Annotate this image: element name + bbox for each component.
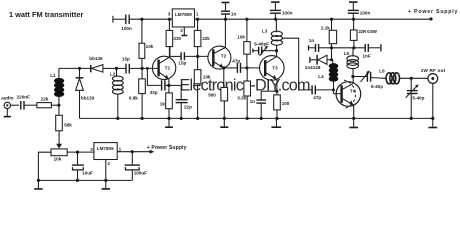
svg-text:3.3k: 3.3k (237, 96, 246, 101)
svg-text:L3: L3 (262, 29, 268, 34)
resistor 2.2k (329, 19, 336, 48)
trimmer 6-40pF (T3 tank) (253, 47, 277, 56)
resistor 10k (T1 bias upper) (139, 19, 145, 68)
ground rail (RF section) (80, 117, 433, 119)
capacitor 220nF (21, 101, 24, 110)
svg-text:220nF: 220nF (17, 95, 30, 100)
svg-text:T2: T2 (221, 54, 227, 59)
resistor 6.8k (T1 bias lower) (139, 68, 146, 118)
wire (51, 104, 59, 106)
inductor L3 (271, 19, 282, 51)
svg-text:3: 3 (90, 147, 93, 152)
svg-text:22k: 22k (41, 96, 49, 101)
svg-text:2: 2 (180, 28, 183, 33)
svg-text:3: 3 (168, 12, 171, 17)
potentiometer 10k (51, 149, 67, 156)
ground symbol (output) (428, 118, 437, 127)
capacitor 15p (tank to base) (117, 64, 158, 74)
svg-text:10k: 10k (54, 157, 62, 162)
inductor L2 (112, 68, 123, 118)
U2 output wire (117, 151, 151, 153)
svg-text:47p: 47p (313, 95, 321, 100)
svg-text:10k: 10k (146, 44, 154, 49)
node 10uF (76, 151, 79, 154)
svg-text:33p: 33p (150, 90, 158, 95)
resistor 330 (166, 19, 173, 56)
svg-text:22k: 22k (202, 36, 210, 41)
U1 ground pin (181, 27, 187, 36)
svg-text:56k: 56k (64, 123, 72, 128)
ground symbol (100/T3 emitter) (271, 118, 281, 127)
capacitor 1nF (354, 44, 381, 52)
svg-text:1: 1 (196, 12, 199, 17)
wire top line (varactor tank) (59, 67, 91, 69)
diode D2 bb139 (horizontal) (91, 65, 117, 73)
inductor L5 (347, 48, 359, 77)
RF out connector (428, 74, 438, 119)
resistor 100 (T3 emitter) (274, 95, 281, 119)
capacitor 100n (rail series input) (125, 15, 127, 23)
ground symbol (T4 emitter) (349, 118, 358, 127)
svg-text:L5: L5 (344, 51, 350, 56)
svg-text:6.8k: 6.8k (129, 96, 138, 101)
node varactor top (78, 67, 81, 70)
svg-text:LM7809: LM7809 (175, 12, 192, 17)
svg-text:T1: T1 (165, 66, 171, 71)
node T3 collector (275, 49, 278, 52)
wire (24, 104, 37, 106)
L3 tap wire to 47p (282, 38, 311, 90)
svg-text:47p: 47p (232, 58, 240, 63)
svg-text:2.2k: 2.2k (321, 25, 330, 30)
capacitor 15p (T1 collector to T2 base) (170, 52, 208, 60)
wire L6 to output (400, 77, 428, 79)
svg-text:10uF: 10uF (82, 171, 93, 176)
inductor L4 (332, 60, 335, 94)
resistor 1k (T1 emitter) (166, 93, 173, 119)
wiper arrow into pot (56, 144, 62, 149)
top supply rail (113, 18, 126, 20)
svg-text:L2: L2 (110, 72, 116, 77)
ground rail (supply section) (38, 179, 132, 181)
node supply-end (429, 17, 432, 20)
svg-text:L6: L6 (379, 68, 385, 73)
svg-text:+ Power Supply: + Power Supply (408, 9, 458, 15)
diode D3 1n4148 (310, 48, 332, 65)
svg-text:10k: 10k (203, 75, 211, 80)
svg-text:1: 1 (119, 147, 122, 152)
svg-text:1n4148: 1n4148 (305, 65, 321, 70)
svg-text:6-40p: 6-40p (371, 84, 383, 89)
transistor T4 (336, 77, 361, 119)
svg-text:1n: 1n (231, 11, 237, 16)
capacitor 100n (decoupling B) (348, 2, 359, 19)
node T4 base (332, 88, 335, 91)
svg-text:T3: T3 (272, 66, 278, 71)
transistor T2 (208, 19, 231, 87)
resistor 3.3k (T3 bias lower) (244, 68, 251, 118)
trimmer 6-40p (output) (353, 71, 386, 82)
svg-text:1W RF out: 1W RF out (421, 68, 446, 73)
capacitor 1n (bias bypass) (309, 44, 332, 52)
node L4 top (330, 58, 333, 61)
regulator U1 LM7809 (172, 9, 194, 27)
capacitor 100uF (125, 152, 140, 181)
svg-text:+ Power Supply: + Power Supply (147, 145, 187, 151)
capacitor 47p (T2 to T3) (224, 63, 260, 73)
svg-text:L1: L1 (50, 73, 56, 78)
capacitor 22p (T1 emitter bypass) (169, 85, 188, 118)
svg-text:audio: audio (1, 96, 13, 101)
regulator U2 LM7805 (94, 143, 117, 160)
svg-text:LM7805: LM7805 (97, 146, 114, 151)
svg-text:1n: 1n (250, 99, 256, 104)
svg-text:100uF: 100uF (134, 170, 147, 175)
node T1 emitter (167, 84, 170, 87)
transistor T3 (260, 51, 285, 95)
svg-text:bb139: bb139 (81, 96, 95, 101)
resistor 22k (audio) (37, 103, 52, 108)
wire end arrow (150, 150, 155, 154)
svg-text:22p: 22p (184, 105, 192, 110)
svg-text:1 watt FM transmitter: 1 watt FM transmitter (9, 10, 83, 19)
svg-text:100n: 100n (282, 11, 293, 16)
svg-text:560: 560 (208, 92, 216, 97)
resistor 10k (T2 bias lower) (194, 56, 201, 118)
rail junction dots (116, 117, 119, 120)
svg-text:L4: L4 (318, 74, 324, 79)
svg-text:15p: 15p (178, 60, 186, 65)
resistor 560 (T2 emitter) (221, 87, 228, 118)
svg-text:bb139: bb139 (89, 56, 103, 61)
svg-text:5-40p: 5-40p (412, 96, 424, 101)
svg-text:100n: 100n (360, 11, 371, 16)
inductor L6 (386, 73, 399, 84)
svg-text:2: 2 (108, 161, 111, 166)
inductor L1 (58, 68, 60, 105)
svg-text:22R 0.5W: 22R 0.5W (358, 29, 377, 34)
node T2 base divider (196, 55, 199, 58)
capacitor 10uF (72, 152, 84, 180)
capacitor 1n (T3 emitter bypass) (256, 91, 277, 118)
wire node B to node C (332, 47, 354, 49)
node T3 base divider (245, 66, 248, 69)
node T1 base (141, 67, 144, 70)
ground symbol (pot) (34, 180, 42, 189)
node T3 emitter (275, 90, 278, 93)
svg-text:1n: 1n (309, 38, 315, 43)
svg-text:100: 100 (282, 101, 290, 106)
node B (osc tank / L2) (115, 67, 118, 70)
rail junction dots (140, 18, 143, 21)
svg-text:1k: 1k (160, 101, 166, 106)
svg-text:10k: 10k (237, 35, 245, 40)
svg-text:6-40pF: 6-40pF (254, 41, 269, 46)
trimmer 5-40p (406, 78, 418, 118)
svg-text:330: 330 (173, 36, 181, 41)
transistor T1 (152, 47, 175, 93)
resistor 22k (T2 bias upper) (194, 19, 201, 56)
node antenna (410, 77, 413, 80)
capacitor 47p (to T4 base) (312, 85, 333, 94)
capacitor 1n (T2 collector decoupling) (221, 3, 230, 20)
svg-text:15p: 15p (122, 57, 130, 62)
resistor 10k (T3 bias upper) (244, 19, 250, 68)
pot left lead / wire (38, 152, 94, 180)
U2 ground pin (105, 160, 107, 181)
node 100uF (131, 150, 134, 153)
node A (audio/L1/56k junction) (57, 104, 60, 107)
varactor D1 bb139 (vertical) (76, 68, 84, 118)
ground symbol (560/T2 emitter) (220, 118, 228, 127)
resistor 56k (56, 105, 63, 145)
node T2 emitter (222, 66, 225, 69)
node C (22R / L5) (352, 46, 355, 49)
ground symbol (1k/T1 emitter) (165, 118, 173, 127)
svg-text:1nF: 1nF (363, 53, 371, 58)
resistor 22R 0.5W (350, 19, 357, 48)
svg-text:T4: T4 (350, 89, 356, 94)
audio input connector (4, 102, 19, 108)
capacitor 100n (decoupling A) (270, 2, 281, 19)
ground symbol (U2) (102, 180, 110, 189)
node T4 collector (351, 75, 354, 78)
ground (audio) (4, 109, 11, 117)
capacitor 33p (T1 base-emitter) (147, 68, 169, 90)
svg-text:100n: 100n (121, 26, 132, 31)
node B (T4 bias) (330, 46, 333, 49)
